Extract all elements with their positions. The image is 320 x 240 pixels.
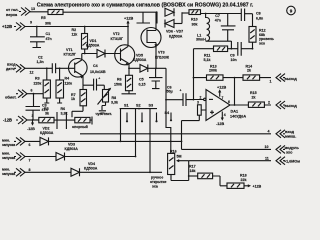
svg-text:R4: R4 [65,77,70,81]
svg-text:R11: R11 [204,54,210,58]
svg-text:-12В: -12В [3,118,12,123]
svg-text:VT2: VT2 [113,32,120,36]
svg-text:13: 13 [31,7,35,11]
svg-text:7: 7 [29,158,31,162]
svg-text:18k: 18k [190,169,196,173]
svg-text:6: 6 [31,89,33,93]
svg-text:модуль: модуль [285,146,300,150]
svg-text:S3: S3 [149,104,154,108]
svg-text:0,15: 0,15 [139,83,146,87]
svg-text:VD4: VD4 [88,162,95,166]
svg-text:VT3: VT3 [158,51,165,55]
svg-text:30k: 30k [45,22,51,26]
svg-text:C8: C8 [256,11,261,15]
svg-text:R5: R5 [41,16,46,20]
svg-text:мин.: мин. [2,138,10,142]
svg-text:3: 3 [197,101,199,105]
svg-text:DA1: DA1 [231,110,239,114]
svg-text:R6: R6 [117,78,122,82]
svg-text:R8: R8 [112,96,117,100]
svg-text:4: 4 [224,113,226,117]
svg-text:C4: C4 [93,64,98,68]
svg-text:-12В: -12В [27,127,35,131]
svg-text:47n: 47n [46,37,52,41]
svg-text:12: 12 [30,71,34,75]
svg-text:10n: 10n [231,58,237,62]
svg-text:чувствит.: чувствит. [96,112,112,116]
svg-text:10,0x16В: 10,0x16В [90,70,106,74]
svg-text:3k: 3k [45,111,49,115]
svg-text:C2: C2 [38,56,43,60]
svg-text:КД503А: КД503А [40,131,54,135]
svg-text:VD5: VD5 [136,53,143,57]
svg-text:КД503А: КД503А [169,35,183,39]
svg-text:2k: 2k [247,69,251,73]
svg-text:6,8n: 6,8n [256,16,263,20]
svg-text:выход: выход [285,77,298,81]
svg-text:S1: S1 [124,104,129,108]
svg-text:11: 11 [265,157,269,161]
svg-text:S2: S2 [136,104,141,108]
svg-text:50μ: 50μ [167,90,173,94]
svg-text:микш.: микш. [285,135,296,139]
svg-text:30mH: 30mH [196,38,206,42]
svg-text:+12В: +12В [217,85,226,89]
svg-text:эхо: эхо [286,151,293,155]
svg-text:150k: 150k [114,83,122,87]
svg-text:1,3n: 1,3n [37,60,44,64]
svg-text:5,1k: 5,1k [204,58,211,62]
svg-text:8: 8 [29,168,31,172]
svg-text:запуска: запуска [2,143,15,147]
svg-text:КД503А: КД503А [86,44,100,48]
svg-text:Схема электронного эхо и сумма: Схема электронного эхо и сумматора сигна… [37,3,254,9]
svg-text:+: + [98,77,100,81]
svg-text:VD1: VD1 [90,39,97,43]
svg-text:вход: вход [285,130,295,134]
svg-text:1k: 1k [71,97,75,101]
svg-text:R10: R10 [191,18,198,22]
svg-text:7: 7 [222,96,224,100]
svg-text:11k: 11k [72,33,78,37]
svg-text:КТ315Г: КТ315Г [64,53,77,57]
svg-text:ручное: ручное [151,175,163,179]
svg-text:датч.: датч. [6,67,15,71]
svg-text:9: 9 [30,21,32,25]
svg-text:47n: 47n [215,18,221,22]
svg-text:1: 1 [270,80,272,84]
svg-text:КП103Ж: КП103Ж [155,56,170,60]
svg-text:2k: 2k [252,95,256,99]
svg-text:эха: эха [152,185,158,189]
svg-text:2: 2 [268,100,270,104]
svg-text:+12В: +12В [2,24,12,29]
svg-text:открытие: открытие [150,180,167,184]
svg-text:C9: C9 [230,54,235,58]
svg-text:КТ315Г: КТ315Г [111,37,124,41]
svg-text:обмот.: обмот. [5,96,17,100]
svg-text:эхо: эхо [259,41,266,45]
svg-text:мин.: мин. [2,152,10,156]
svg-text:вход: вход [7,63,16,67]
svg-text:верха: верха [6,12,18,17]
svg-text:+12В: +12В [253,185,262,189]
svg-text:КД503А: КД503А [133,58,147,62]
svg-text:6: 6 [29,143,31,147]
svg-text:+: + [180,89,182,93]
svg-text:R18: R18 [240,174,247,178]
svg-text:3,3k: 3,3k [111,101,118,105]
svg-text:запуска: запуска [2,172,15,176]
svg-text:10: 10 [265,145,269,149]
svg-text:C5: C5 [139,78,144,82]
svg-text:9: 9 [290,8,293,13]
svg-text:VT1: VT1 [66,48,73,52]
svg-text:3: 3 [32,114,34,118]
svg-text:140УД6А: 140УД6А [230,114,246,118]
svg-text:C1: C1 [46,32,51,36]
svg-text:VD6 - VD7: VD6 - VD7 [166,30,183,34]
svg-text:VD3: VD3 [68,143,75,147]
svg-text:КД503А: КД503А [84,167,98,171]
svg-text:200k: 200k [209,69,217,73]
svg-text:2: 2 [200,95,202,99]
svg-text:220к: 220к [34,81,42,85]
svg-text:КД503А: КД503А [65,147,79,151]
svg-text:22k: 22k [241,178,247,182]
svg-text:R17: R17 [189,164,196,168]
svg-text:+12В: +12В [124,17,133,21]
svg-text:мин.: мин. [2,167,10,171]
svg-text:запуска: запуска [2,156,15,160]
svg-text:R3: R3 [35,77,40,81]
svg-text:R2: R2 [72,28,77,32]
svg-text:R16: R16 [170,150,177,154]
svg-text:110к: 110к [65,81,73,85]
svg-text:опорный: опорный [72,125,88,129]
svg-text:5М: 5М [177,155,182,159]
svg-text:-12В: -12В [216,122,224,126]
svg-text:+1,6МОм: +1,6МОм [284,159,300,163]
svg-text:30k: 30k [192,23,198,27]
svg-text:6: 6 [228,100,230,104]
svg-text:выход: выход [285,104,298,108]
svg-text:4: 4 [268,130,270,134]
